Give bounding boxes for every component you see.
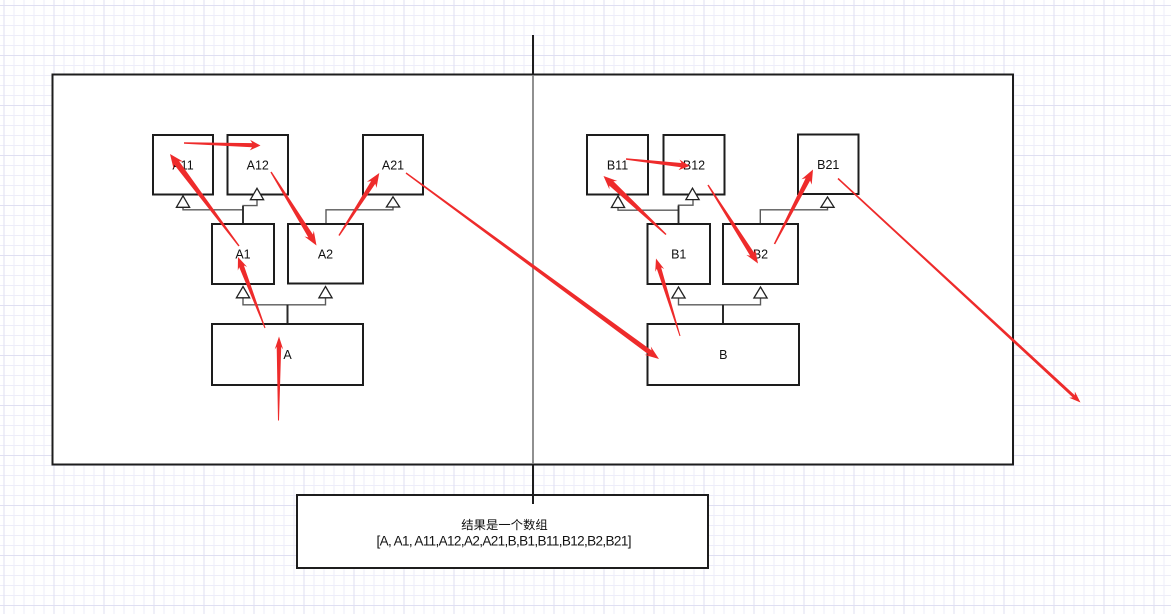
- svg-text:A21: A21: [382, 158, 404, 172]
- svg-text:B: B: [719, 348, 727, 362]
- svg-text:A: A: [283, 348, 292, 362]
- svg-text:B1: B1: [671, 248, 686, 262]
- svg-text:A2: A2: [318, 247, 333, 261]
- svg-text:A12: A12: [247, 158, 269, 172]
- svg-text:B11: B11: [607, 158, 628, 172]
- svg-text:A1: A1: [235, 248, 250, 262]
- svg-text:[A, A1, A11,A12,A2,A21,B,B1,B1: [A, A1, A11,A12,A2,A21,B,B1,B11,B12,B2,B…: [377, 533, 631, 548]
- svg-text:B21: B21: [817, 158, 839, 172]
